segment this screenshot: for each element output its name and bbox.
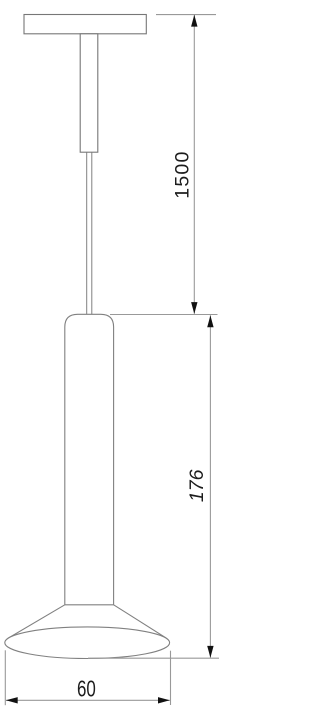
dimension line 176 <box>209 315 211 657</box>
cone shade right slant <box>114 605 166 638</box>
arrow down 176 <box>207 646 213 658</box>
svg-text:1500: 1500 <box>172 151 194 199</box>
arrow up 1500 <box>191 15 197 27</box>
cone shade left slant <box>9 605 65 638</box>
stem <box>80 34 98 152</box>
svg-text:60: 60 <box>77 677 96 702</box>
extension line shade left <box>4 650 6 705</box>
arrow left 60 <box>6 697 18 703</box>
lamp body cylinder <box>65 314 114 605</box>
extension line cylinder top <box>110 314 218 316</box>
arrow up 176 <box>207 315 213 327</box>
shade bottom ellipse <box>5 627 170 659</box>
cable <box>86 152 88 314</box>
extension line shade right <box>170 651 172 705</box>
arrow down 1500 <box>191 302 197 314</box>
extension line shade bottom <box>88 657 219 659</box>
arrow right 60 <box>158 697 170 703</box>
extension line top <box>156 14 216 16</box>
cylinder bottom edge <box>65 604 114 606</box>
svg-text:176: 176 <box>186 469 208 502</box>
ceiling plate <box>24 15 146 34</box>
dimension line 1500 <box>193 15 195 314</box>
dimension line 60 <box>6 699 170 701</box>
